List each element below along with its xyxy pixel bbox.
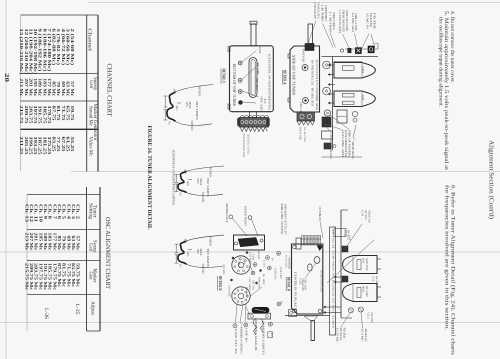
svg-text:6U8: 6U8 (362, 258, 365, 263)
svg-text:OSC ADJ: OSC ADJ (304, 279, 307, 291)
svg-text:DETAIL A: DETAIL A (283, 70, 288, 85)
tube 1 pins (330, 64, 334, 66)
svg-text:(L25 OSC ADJ: (L25 OSC ADJ (341, 130, 345, 158)
svg-text:30%: 30% (175, 105, 178, 111)
svg-text:MAX: MAX (199, 178, 203, 186)
chassis apron dark can A (348, 48, 351, 53)
svg-text:6U8: 6U8 (361, 95, 365, 101)
svg-text:C25: C25 (298, 279, 301, 286)
mix-osc tube slot (357, 260, 361, 270)
svg-text:(CHANNELS 2-6 RESPONSE CURVES): (CHANNELS 2-6 RESPONSE CURVES) (171, 150, 175, 205)
svg-text:SOUND: SOUND (190, 121, 194, 132)
svg-text:SOUND: SOUND (201, 264, 205, 275)
detail C underline (220, 69, 222, 85)
cover box pin arrows right (336, 276, 344, 278)
svg-text:30%: 30% (186, 252, 189, 258)
chassis leader lines lower (322, 121, 330, 132)
antenna lead-in wires (253, 319, 257, 335)
svg-text:5%: 5% (179, 264, 182, 268)
svg-text:L24 OSC: L24 OSC (228, 285, 231, 297)
cover box label leader (306, 263, 317, 278)
chassis socket circle mid2 (323, 87, 331, 95)
tuner side socket teeth (297, 121, 315, 125)
tuner side view bottom socket (297, 112, 315, 121)
svg-text:B+ 140V: B+ 140V (262, 274, 265, 285)
svg-text:Video Mc: Video Mc (88, 137, 94, 158)
svg-text:RF AMP: RF AMP (365, 286, 368, 297)
svg-text:Alignment Section (Cont'd): Alignment Section (Cont'd) (487, 140, 494, 219)
svg-text:13 (210-216 Mc): 13 (210-216 Mc) (19, 29, 24, 75)
osc grid tube socket (232, 287, 250, 305)
svg-text:6ER5: 6ER5 (362, 286, 365, 293)
svg-text:L2 OSC ADJ: L2 OSC ADJ (351, 13, 355, 33)
trimmer pointer dark triangle (317, 246, 323, 251)
fold crease upper-middle (71, 171, 500, 173)
channel chart divider sweep/marker (21, 100, 99, 102)
svg-text:Ch. 13: Ch. 13 (24, 204, 29, 223)
svg-text:41.25 MC: 41.25 MC (336, 328, 339, 343)
chassis flange bottom (285, 315, 330, 317)
m1 test point (268, 322, 272, 326)
chassis apron dark can B with screw (355, 48, 361, 54)
svg-text:C1B: C1B (361, 210, 364, 216)
response curve 3 (channels 7-13) lower tail (187, 264, 224, 267)
tuner bottom view outline (230, 46, 274, 112)
svg-text:FIGURE 24. TUNER ALIGNMENT DET: FIGURE 24. TUNER ALIGNMENT DETAIL (146, 126, 152, 230)
svg-text:ANTENNA LEAD-IN: ANTENNA LEAD-IN (254, 318, 257, 351)
callout leader 5 (355, 34, 359, 50)
svg-text:(* MODELS ONLY): (* MODELS ONLY) (240, 323, 243, 354)
svg-text:the oscilloscope input during: the oscilloscope input during alignment. (438, 17, 444, 107)
svg-text:(CHANNEL #4 ADJUSTMENTS): (CHANNEL #4 ADJUSTMENTS) (268, 54, 272, 110)
svg-text:BOTTOM OF VHF TUNER: BOTTOM OF VHF TUNER (232, 64, 237, 106)
tube 1 envelope 6AT8 (334, 63, 375, 79)
svg-text:30%: 30% (184, 238, 187, 244)
cover box corner screws (293, 245, 297, 249)
tuner bottom view shaft (251, 24, 256, 46)
svg-text:FOR FINE TUNING: FOR FINE TUNING (280, 204, 284, 235)
svg-text:METER TRANS: METER TRANS (351, 142, 355, 159)
channel chart outer rule (97, 15, 99, 172)
mixer tube socket (232, 256, 250, 274)
terminal strip lugs (241, 116, 269, 118)
svg-text:L27 MIX: L27 MIX (238, 256, 241, 268)
svg-text:VIDEO: VIDEO (198, 86, 202, 97)
svg-text:HTR B+ GND: HTR B+ GND (299, 127, 302, 140)
fold crease top (88, 2, 500, 4)
channel chart top border (21, 14, 99, 16)
shaft funnel boss (304, 316, 318, 321)
svg-text:213 Mc: 213 Mc (24, 233, 29, 251)
svg-text:C115: C115 (263, 260, 266, 268)
mixer out leader (232, 218, 247, 236)
svg-text:6CG8: 6CG8 (257, 251, 260, 260)
channel chart bottom border (20, 15, 22, 171)
response curve 1 (channels 2-6 a) thick trace with humps (167, 92, 176, 121)
svg-text:C1A: C1A (343, 230, 346, 236)
pre-aligned label box (330, 227, 336, 335)
chassis socket circle mid (323, 61, 331, 69)
svg-text:L-25: L-25 (74, 304, 80, 315)
tuner bottom view slot outer (249, 58, 257, 98)
svg-text:for frequencies involved are g: for frequencies involved are given in th… (444, 185, 450, 330)
channel chart divider channel/sweep (21, 73, 99, 75)
drive shaft down (311, 321, 314, 341)
test point circles upper (251, 271, 255, 275)
uhf fil in test point (233, 324, 237, 328)
chassis apron small circle (340, 49, 343, 52)
svg-text:VIDEO: VIDEO (209, 167, 213, 178)
tube 2 plate slots (343, 93, 355, 97)
callout leader 7 (371, 34, 375, 48)
tube 2 envelope 6U8 (334, 91, 375, 107)
tuner bottom mounting tabs (228, 47, 230, 52)
svg-text:TRIM CAP: TRIM CAP (368, 210, 371, 224)
svg-text:RF PRI ADJ (L73): RF PRI ADJ (L73) (310, 60, 314, 85)
svg-text:OSC ADJ: OSC ADJ (259, 97, 263, 112)
svg-text:COVER 15 IN PLACE: COVER 15 IN PLACE (320, 270, 323, 292)
tube 1 plate slot (343, 66, 355, 71)
tuner side view shaft bushing dark (305, 44, 314, 51)
flange foot left (289, 310, 297, 317)
response curve 3 (channels 7-13) upper tail (187, 235, 225, 241)
detail A underline (281, 70, 283, 85)
svg-text:45 MC IN: 45 MC IN (366, 13, 370, 30)
rf amp tube slot (357, 288, 361, 298)
mix-osc tube envelope pointing left (343, 256, 378, 274)
svg-text:215.75 Mc: 215.75 Mc (24, 263, 29, 290)
svg-text:30%: 30% (184, 169, 187, 175)
tuner bottom view adjustment holes (238, 61, 242, 65)
svg-text:28 INCH TOP PRE-ALIGNED AT FAC: 28 INCH TOP PRE-ALIGNED AT FACTORY (332, 229, 335, 329)
osc chart divider setting/sweep (27, 229, 100, 231)
chassis IF output parts (322, 131, 333, 139)
svg-text:L1 IM TRAP: L1 IM TRAP (329, 12, 333, 32)
m1 boxed label (268, 332, 273, 338)
svg-text:CHANNEL CHART: CHANNEL CHART (106, 64, 113, 117)
svg-text:COIL: COIL (252, 254, 255, 262)
svg-text:L23 OSC: L23 OSC (249, 252, 252, 264)
svg-text:RF SEC: RF SEC (364, 210, 367, 220)
test point circle far (277, 251, 281, 255)
svg-text:C111 IN: C111 IN (279, 267, 282, 279)
response curve 2 (channels 2-6 b) thick trace with humps (178, 171, 187, 192)
tuner bottom view hole leaders (242, 51, 257, 63)
svg-text:PLATE: PLATE (243, 256, 246, 265)
svg-text:FROM OPPOSITE: FROM OPPOSITE (341, 10, 345, 32)
rf amp pins (377, 286, 381, 288)
svg-text:Setting: Setting (88, 203, 94, 219)
response curve 1 (channels 2-6 a) tilt limit brackets (164, 96, 166, 107)
svg-text:SOUND: SOUND (201, 192, 205, 203)
tuner side adjustment circle lower (303, 98, 309, 104)
svg-text:TILT LIMITS: TILT LIMITS (206, 178, 210, 197)
osc chart outer rule (99, 187, 101, 331)
svg-text:Gen: Gen (88, 272, 94, 280)
svg-text:OSC TRIM ADJ: OSC TRIM ADJ (318, 207, 322, 222)
svg-text:(L72 L73 L74 L75 CHANNEL ADJ): (L72 L73 L74 L75 CHANNEL ADJ) (315, 60, 319, 110)
svg-text:SIDE OF UNITS: SIDE OF UNITS (345, 10, 349, 31)
svg-text:RF PRI: RF PRI (256, 63, 260, 75)
svg-text:UHF FIL IN: UHF FIL IN (234, 329, 237, 354)
antenna mounting plate (248, 313, 271, 319)
svg-text:HI-PASS: HI-PASS (369, 13, 373, 27)
cover box outline (292, 244, 323, 314)
uhf b+ test point (244, 323, 248, 327)
svg-text:DETAIL C: DETAIL C (221, 69, 226, 84)
response curve 1 (channels 2-6 a) upper tail (176, 85, 214, 93)
socket leader lines down (240, 305, 243, 322)
svg-text:(ON OPPOSITE: (ON OPPOSITE (344, 130, 348, 157)
terminal strip white circles (241, 121, 244, 124)
callout leader 1 (308, 21, 316, 45)
detail B underline (217, 276, 219, 291)
fold crease middle (0, 251, 500, 253)
svg-text:UHF B+: UHF B+ (245, 328, 248, 344)
callout leader 6 (361, 34, 369, 50)
svg-text:(IF INPUT RECEPT): (IF INPUT RECEPT) (313, 2, 317, 19)
svg-text:(* MODELS ONLY): (* MODELS ONLY) (317, 2, 321, 19)
svg-text:FILTER: FILTER (372, 13, 376, 29)
terminal strip teeth (240, 127, 267, 132)
svg-text:OPENING: OPENING (324, 5, 328, 21)
svg-text:RF SEC: RF SEC (347, 230, 350, 240)
cover box slot hole (308, 264, 312, 271)
osc chart closing border (87, 330, 101, 332)
svg-text:ANTENNA TERMINAL STRIP: ANTENNA TERMINAL STRIP (242, 133, 245, 157)
svg-text:RF AMP: RF AMP (245, 287, 248, 299)
svg-text:TILT LIMITS: TILT LIMITS (195, 101, 199, 120)
page left edge crease (5, 0, 7, 359)
fine tuning box (234, 235, 265, 250)
osc trim leader lower (320, 222, 323, 239)
svg-text:RF PRI: RF PRI (370, 313, 373, 323)
svg-text:M1+: M1+ (270, 333, 273, 339)
mixer out terminal circle (229, 215, 233, 219)
chassis front edge (322, 56, 379, 58)
svg-text:HI-PASS: HI-PASS (364, 329, 367, 343)
osc chart divider marker/adjust (27, 294, 100, 296)
svg-text:RF SEC: RF SEC (255, 79, 259, 91)
svg-text:Gen: Gen (88, 243, 94, 251)
svg-text:OSC GRID: OSC GRID (248, 278, 251, 291)
svg-text:MAX: MAX (199, 249, 203, 257)
chassis bottom edge (322, 156, 363, 158)
svg-text:OSC ALIGNMENT CHART: OSC ALIGNMENT CHART (104, 217, 111, 289)
svg-text:METER TRANS: METER TRANS (244, 206, 248, 226)
chassis dark component low (322, 117, 331, 127)
tuner side view outline (290, 46, 320, 112)
response curve 3 (channels 7-13) thick trace with humps (178, 241, 187, 264)
svg-text:CHAN ADJ: CHAN ADJ (301, 279, 304, 292)
svg-text:C10 OSC TRIM ADJ: C10 OSC TRIM ADJ (329, 133, 333, 160)
svg-text:COVER IS IN PLACE: COVER IS IN PLACE (293, 272, 297, 310)
svg-text:TRIMMER: TRIMMER (288, 257, 291, 269)
response curve 3 (channels 7-13) tilt limit brackets (175, 244, 177, 253)
svg-text:6AT8: 6AT8 (361, 67, 365, 74)
svg-text:FILTER: FILTER (343, 328, 346, 339)
antenna terminal block dark (252, 307, 269, 313)
svg-text:MIX OSC: MIX OSC (258, 277, 261, 289)
svg-text:Gen: Gen (88, 80, 94, 88)
right assembly leader diagonals (345, 224, 362, 249)
chassis top lip (345, 48, 378, 50)
osc chart left border (27, 194, 100, 196)
svg-text:30%: 30% (173, 89, 176, 95)
chassis second lip (333, 61, 363, 63)
callout leader 4 (343, 34, 350, 49)
svg-text:UHF FIL: UHF FIL (274, 269, 277, 280)
svg-text:30%: 30% (186, 181, 189, 187)
svg-text:L46 THRU: L46 THRU (321, 5, 325, 23)
osc trim cap rect (334, 229, 346, 237)
svg-text:THRU HOLE: THRU HOLE (332, 12, 336, 30)
svg-text:MAX: MAX (188, 102, 192, 110)
fold crease lower (0, 322, 500, 324)
callout leader 2 (323, 24, 334, 48)
right assembly screw terminals (348, 308, 353, 313)
socket area screw dots (246, 251, 248, 253)
osc chart bottom border (26, 195, 28, 332)
tube 2 pins (330, 93, 334, 95)
svg-text:213 Mc: 213 Mc (19, 78, 24, 96)
right assembly edge (340, 210, 342, 318)
svg-text:AGC IF OUT B+: AGC IF OUT B+ (303, 127, 306, 143)
nc test point (277, 302, 281, 306)
terminal strip end blobs (238, 119, 241, 126)
svg-text:TP 370: TP 370 (252, 280, 255, 291)
svg-text:5%: 5% (179, 192, 182, 196)
tuner bottom view adjustment hole dark (239, 101, 243, 105)
svg-text:L2: L2 (263, 99, 267, 105)
callout leader 3 (330, 33, 335, 48)
response curve 1 (channels 2-6 a) lower tail (176, 121, 213, 125)
svg-text:SIDE OF VHF TUNER: SIDE OF VHF TUNER (291, 55, 296, 95)
svg-text:L-26: L-26 (43, 308, 49, 319)
chassis corner bracket (375, 44, 379, 50)
svg-text:NC: NC (279, 301, 282, 305)
svg-text:215.75: 215.75 (19, 106, 24, 125)
tuner side view shaft (308, 24, 313, 44)
svg-text:Sound Mc: Sound Mc (88, 106, 94, 127)
chassis component rect mid (337, 110, 347, 123)
svg-text:HI-PASS: HI-PASS (339, 328, 342, 342)
svg-text:(SEE DETAIL C NOTES): (SEE DETAIL C NOTES) (247, 134, 250, 154)
trim cap dark squares (342, 246, 348, 252)
meter trans terminal circle (248, 216, 252, 220)
meter trans leader (251, 219, 258, 236)
tuner bottom terminal strip base (239, 118, 269, 128)
svg-text:ANT ADJ: ANT ADJ (302, 49, 306, 64)
tuner bottom view slot inner (251, 60, 255, 96)
svg-text:CHK 1.5 VDC: CHK 1.5 VDC (354, 13, 358, 31)
svg-text:MID-POINT SET TO .25": MID-POINT SET TO .25" (284, 204, 288, 235)
fine tuning lever dark (238, 238, 259, 247)
svg-text:DETAIL B: DETAIL B (218, 276, 223, 291)
svg-text:C13: C13 (367, 313, 370, 320)
response curve 2 (channels 2-6 b) lower tail (187, 193, 224, 196)
svg-text:1.2 VOLTS (MC): 1.2 VOLTS (MC) (338, 10, 342, 33)
tuner side adjustment circle upper (302, 65, 308, 71)
response curve 2 (channels 2-6 b) tilt limit brackets (175, 174, 177, 182)
channel chart divider sound/video (21, 128, 99, 130)
svg-text:(* MODELS ONLY): (* MODELS ONLY) (262, 322, 265, 355)
svg-text:DETAIL D: DETAIL D (286, 277, 290, 291)
trimmer bracket (296, 238, 301, 249)
svg-text:211.25: 211.25 (19, 137, 24, 156)
response curve 2 (channels 2-6 b) upper tail (187, 166, 225, 171)
cover box oval hole (314, 257, 320, 264)
osc chart divider sweep/marker (27, 260, 100, 262)
svg-text:C1C: C1C (372, 276, 375, 282)
tuner side view mounting tabs (288, 54, 290, 58)
svg-text:5%: 5% (168, 121, 171, 125)
svg-text:Adjust: Adjust (90, 301, 96, 316)
detail D underline (285, 277, 287, 291)
chassis small circles low (352, 111, 357, 116)
svg-text:20: 20 (3, 73, 10, 82)
channel chart header rule (86, 15, 88, 172)
svg-text:B+: B+ (271, 258, 274, 262)
tuner bottom center tab (250, 112, 257, 118)
svg-text:MIX-OSC: MIX-OSC (365, 258, 368, 271)
chassis apron dark can C (368, 46, 374, 53)
svg-text:TILT LIMITS: TILT LIMITS (206, 248, 210, 267)
svg-text:Channel: Channel (87, 28, 93, 51)
osc chart header rule (86, 187, 88, 331)
socket interconnect lines (250, 265, 253, 273)
mix-osc pins (377, 258, 381, 260)
chassis left edge (332, 57, 334, 151)
svg-text:ANT: ANT (258, 47, 262, 54)
svg-text:C116 OSC: C116 OSC (285, 255, 288, 268)
trimmer comb teeth (302, 236, 304, 246)
rf amp tube envelope pointing left (343, 284, 378, 302)
svg-text:RF SEC ADJ: RF SEC ADJ (310, 88, 314, 107)
svg-text:VIDEO: VIDEO (209, 236, 213, 247)
cover pin arrows mid (326, 306, 341, 308)
chassis socket circle low (324, 110, 330, 116)
svg-text:MIXER OUT: MIXER OUT (225, 204, 229, 223)
svg-text:370 IN: 370 IN (222, 264, 225, 274)
inter-tube pin (330, 84, 335, 86)
svg-text:45.3 MC: 45.3 MC (361, 329, 364, 342)
tuner bottom view shaft cap (250, 21, 257, 24)
